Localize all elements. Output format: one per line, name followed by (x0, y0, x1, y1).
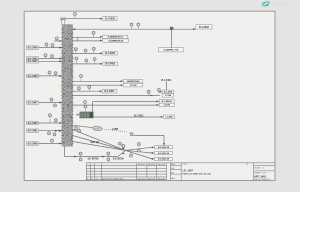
net label R9 B-1-3407 (100, 89, 117, 93)
wire from net label B-1-3401 to strip (39, 130, 62, 132)
wire tag on wire W5 b (84, 49, 87, 53)
svg-text:3-1-3400: 3-1-3400 (165, 116, 173, 119)
net label RC B-1-3403-1A (152, 157, 173, 160)
wire tag on wire W10 a (147, 90, 150, 95)
page background (0, 0, 300, 192)
wire tag on bottom wire a2 (79, 157, 82, 161)
wire tag on fuse wire a (75, 126, 78, 130)
net label R1 B-1-3403 (100, 17, 117, 21)
svg-text:B-1-3401: B-1-3401 (28, 130, 38, 133)
svg-text:05: 05 (96, 178, 98, 180)
net label RA B-1-3414-1A (152, 146, 173, 149)
svg-text:B-1-3407: B-1-3407 (105, 90, 115, 93)
wire tag above relay K1 (84, 105, 87, 112)
wire W7 to device label 5AMMIT-EA4 (73, 80, 121, 82)
wire W12 to net label 3-COM (73, 102, 157, 112)
wire tag on wire L1 b (51, 44, 54, 48)
svg-text:B-1-3405: B-1-3405 (28, 122, 38, 125)
svg-text:2: 2 (87, 178, 88, 180)
wire tag on wire W12 (84, 101, 87, 106)
svg-text:SCALE 1 : 1: SCALE 1 : 1 (255, 167, 264, 170)
svg-text:APPROVED SIGNATURE: APPROVED SIGNATURE (102, 177, 124, 180)
svg-text:4: 4 (88, 166, 89, 168)
net label R12 3-COM (157, 103, 175, 106)
wire from net label B-1-3409 to strip (39, 75, 62, 77)
wire tag on wire W3 (92, 31, 95, 37)
svg-text:GA-0873A: GA-0873A (88, 158, 99, 161)
svg-text:SHEET 1 OF 1: SHEET 1 OF 1 (255, 173, 267, 175)
svg-text:B-1-3414-1A: B-1-3414-1A (158, 146, 170, 149)
svg-text:B-1-3402: B-1-3402 (105, 63, 115, 66)
net label L7 B-1-3401 (27, 129, 39, 133)
terminal post P1 on strip top (61, 18, 63, 25)
wire tag on wire L1 a (45, 43, 48, 48)
wire tag on bottom wire a1 (79, 152, 82, 156)
drop wire from junction to device label (171, 30, 173, 48)
wire from net label B-1-3407 to strip (39, 102, 62, 104)
device label R4 X-5AMBR-ELY4 (100, 39, 129, 42)
floating net name B-1-3401 with drop line (161, 79, 172, 90)
svg-text:AS-1044: AS-1044 (148, 163, 155, 166)
wire W1 from strip top to net label B-1-3403 (66, 18, 100, 20)
svg-text:B-1-3408: B-1-3408 (164, 91, 173, 94)
svg-text:AS-1045: AS-1045 (158, 163, 165, 166)
wire tag on fan wire c (137, 142, 140, 146)
wire W13 from relay K1 to net label 3-1-3400 (93, 114, 161, 117)
svg-text:GA-0873A: GA-0873A (113, 158, 124, 161)
wire from net label B-1-3404 to strip (39, 47, 62, 49)
wire tag on stub wire (55, 37, 58, 41)
svg-text:B-1-3402: B-1-3402 (199, 26, 209, 29)
wire tag on wire L2 a (44, 54, 47, 59)
wire tag on fuse wire b (78, 126, 81, 132)
svg-text:X-5AMREL-TY4: X-5AMREL-TY4 (163, 49, 179, 52)
wire from net label B-1-3402 to strip (39, 57, 62, 59)
wire tag on wire L5 a (50, 98, 53, 102)
svg-text:AS-1043: AS-1043 (138, 163, 145, 166)
fan wires from strip to stacked net labels (73, 130, 152, 159)
title block small texts (87, 163, 274, 181)
svg-text:zuken: zuken (271, 2, 286, 7)
net label L5 B-1-3407 (27, 101, 39, 105)
net label R11 B-1-3406-A (157, 100, 175, 104)
wire tag on wire L5 b (54, 103, 57, 107)
svg-text:SEE (A): SEE (A) (90, 141, 99, 144)
wire tag on fan wire a (118, 142, 121, 147)
svg-text:B-1-3407: B-1-3407 (28, 102, 38, 105)
dotted continuation wire with 1.25M label (102, 129, 127, 132)
wire tag on bottom wire b2 (107, 157, 110, 161)
vendor logo icon (262, 1, 270, 6)
svg-text:3-COM: 3-COM (165, 95, 172, 97)
svg-text:B-1-3404: B-1-3404 (28, 47, 38, 50)
wire tag on wire L7 a (48, 131, 51, 135)
wire from net label B-1-3406 to strip (39, 142, 62, 144)
device label X-5AMREL-TY4 (159, 48, 184, 52)
wire W14 drop to net label group (134, 135, 165, 145)
terminal strip TB1 (61, 25, 73, 147)
wire tag on fan wire e (130, 152, 133, 157)
wire tag on wire L2 b (51, 55, 54, 59)
wire W3 to device label (73, 36, 101, 38)
svg-text:B-1-3401: B-1-3401 (161, 79, 172, 82)
svg-text:B-1-3403-1A: B-1-3403-1A (158, 158, 170, 161)
svg-text:AS-1044: AS-1044 (148, 177, 155, 180)
wire tag on wire W6 c (93, 58, 96, 64)
svg-text:PAGE 3-11 GRID 433 COL 434: PAGE 3-11 GRID 433 COL 434 (183, 172, 212, 175)
terminal post P2 on strip top (64, 18, 66, 25)
net label L3 B-1-3304 (27, 60, 39, 64)
svg-text:AS-1043: AS-1043 (138, 177, 145, 180)
stub wire with tag left of strip (54, 40, 62, 42)
wire tag on wire W1 (73, 13, 76, 19)
wire tag on wire L8 (51, 139, 54, 143)
fuse F1 inline on diagonal wire (73, 125, 103, 131)
wire tag on wire L4 a (48, 71, 51, 76)
wire tag on wire W5 a (74, 48, 77, 54)
wire from net label B-1-3405 to strip (39, 122, 62, 124)
wire W10 from strip to stacked labels (73, 95, 160, 97)
wire W4 to device label (73, 40, 101, 42)
svg-text:B-1-3409: B-1-3409 (28, 75, 38, 78)
wire W5 to net label B-1-3405 (73, 52, 101, 54)
wire tag at dotted wire end (129, 132, 133, 135)
svg-text:B-1-3403: B-1-3403 (105, 18, 115, 21)
wire tag on bottom wire b1 (107, 152, 110, 156)
wire tag on wire W5 c (92, 47, 95, 53)
svg-text:5AMMIT-EA4: 5AMMIT-EA4 (127, 80, 140, 83)
relay contact block K1 (77, 112, 94, 118)
svg-text:B-1-3406-A: B-1-3406-A (162, 100, 173, 103)
wire tag on fan wire b (122, 144, 125, 148)
device label R3 X-5AMAR-ELY4 (100, 35, 128, 38)
svg-text:B-1-3304: B-1-3304 (28, 60, 38, 63)
wire tag on wire W6 a (75, 57, 78, 64)
title block and revision table (86, 163, 274, 181)
net label L4 B-1-3409 (27, 74, 39, 78)
svg-text:B-1-3406: B-1-3406 (28, 142, 38, 145)
net label L8 B-1-3406 (27, 142, 39, 146)
svg-text:B-1-3401-1A: B-1-3401-1A (158, 152, 170, 155)
double arrow marks on wire L7 (55, 130, 61, 132)
svg-text:X-5AMBR-ELY4: X-5AMBR-ELY4 (108, 39, 124, 42)
wire W11 to net label B-1-3406-A (93, 101, 157, 103)
net label R13 3-1-3400 (161, 115, 175, 119)
jog wire between W3 and W4 (77, 37, 79, 41)
svg-text:B-1-3411: B-1-3411 (134, 114, 144, 117)
wire tag on wire L6 b (54, 119, 57, 123)
net label L1 B-1-3404 (27, 46, 39, 50)
svg-text:B-1-3405: B-1-3405 (105, 52, 115, 55)
net label R10a B-1-3408 (160, 90, 174, 94)
drawing sheet (24, 11, 275, 180)
wire tag near wire L6 a (49, 114, 52, 123)
junction connector on wire W2 (170, 27, 173, 30)
net label R8 3-COM (121, 83, 143, 87)
wire tag on wire L7 b (53, 131, 56, 136)
wire W6 to net label B-1-3402 (73, 63, 101, 65)
net label RB B-1-3401-1A (152, 152, 173, 155)
svg-text:DWG B-1-3400 SH 2: DWG B-1-3400 SH 2 (254, 179, 270, 181)
net label L6 B-1-3405 (27, 121, 39, 125)
svg-text:3-COM: 3-COM (130, 85, 137, 87)
wire tag on wire W10 b (157, 88, 160, 93)
wire tag on wire W2 b (137, 23, 140, 29)
net label R6 B-1-3402 (100, 62, 117, 66)
wire tag on wire W9 a (77, 87, 80, 91)
wire tag on wire W7 (80, 74, 83, 81)
svg-text:1.25M: 1.25M (112, 129, 119, 131)
wire tag on fan wire d (137, 149, 140, 152)
device label R7 5AMMIT-EA4 (121, 79, 143, 83)
wire W8 to net label 3-COM (73, 84, 121, 86)
wire tag on wire L4 b (54, 72, 57, 76)
long wire W2 from strip to net label B-1-3402 (73, 28, 196, 30)
wire tag on wire W9 b (88, 85, 91, 91)
svg-text:X-5AMAR-ELY4: X-5AMAR-ELY4 (108, 36, 124, 39)
wire from net label B-1-3304 to strip (39, 60, 62, 62)
svg-text:AS-1045: AS-1045 (158, 177, 165, 180)
net label R5 B-1-3405 (100, 52, 117, 56)
wire tag on wire W2 a (130, 23, 133, 29)
net label L2 B-1-3402 (27, 57, 39, 61)
wire W9 to net label B-1-3407 (73, 90, 100, 92)
net label R10b 3-COM (162, 94, 173, 98)
net label R2 B-1-3402 (196, 25, 212, 29)
svg-text:3-COM: 3-COM (164, 105, 171, 107)
wire tag on wire W6 b (85, 59, 88, 64)
svg-text:LTL-1067: LTL-1067 (183, 170, 194, 173)
svg-text:APC-1061: APC-1061 (254, 174, 267, 178)
bottom feeder wire from strip (65, 146, 126, 157)
